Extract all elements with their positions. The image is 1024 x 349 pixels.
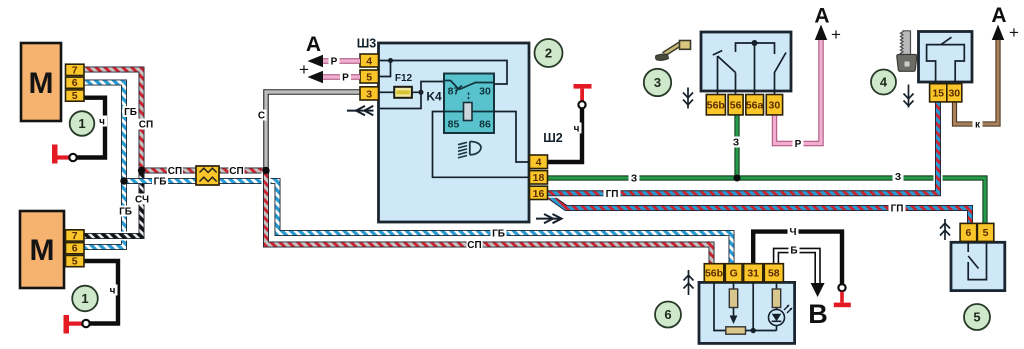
svg-text:4: 4 xyxy=(880,75,888,90)
ground symbol motor M1 xyxy=(52,145,77,164)
connector pins 6,5 of fog switch xyxy=(960,223,994,241)
svg-text:С: С xyxy=(258,111,265,122)
svg-text:85: 85 xyxy=(448,119,460,131)
svg-text:56a: 56a xyxy=(746,100,764,112)
ignition switch unit 4 body xyxy=(919,32,973,83)
wire SP from motor1 pin7 down to node A xyxy=(84,70,142,171)
relay 85-86 rail xyxy=(444,111,494,113)
unit6 LED indicator xyxy=(769,305,793,326)
svg-text:Р: Р xyxy=(795,139,802,150)
node C junction dot xyxy=(262,167,269,174)
relay terminal labels 87 30 85 86 xyxy=(448,86,491,131)
lamp switch unit 6 body xyxy=(699,282,795,343)
svg-text:A: A xyxy=(306,33,321,56)
svg-text:56: 56 xyxy=(730,100,742,112)
mounting block unit 2 xyxy=(379,43,530,222)
connector pins 56b,G,31,58 of lamp switch unit 6 xyxy=(704,264,783,282)
wire GB vertical node B to motor2 pin6 xyxy=(84,181,124,247)
stalk lever icon of switch 3 xyxy=(656,41,691,61)
label ch on power wire of Sh2 pin4 xyxy=(572,123,582,135)
connector Sh3 pins 4,5,3 xyxy=(360,54,379,100)
label Z on light switch green vertical xyxy=(731,137,742,149)
light switch unit 3 body xyxy=(701,32,791,91)
svg-text:5: 5 xyxy=(366,71,372,83)
svg-text:1: 1 xyxy=(78,116,85,131)
junction dot on pin4 wire xyxy=(388,58,393,63)
wire Sh3 pin3 to fuse xyxy=(379,91,395,93)
unit6 wire 56b to rheostat xyxy=(714,282,726,330)
wire Z green from light-switch pin56 down to junction xyxy=(734,115,739,178)
svg-text:30: 30 xyxy=(948,88,960,100)
svg-text:СП: СП xyxy=(139,120,153,131)
arrowhead of pink wire A xyxy=(815,25,827,41)
arrowhead of wire B xyxy=(811,283,825,297)
label GP on striped wire a xyxy=(604,188,621,200)
svg-text:+: + xyxy=(1009,23,1019,42)
wire Ch thick from lamp-switch pin31 to ground xyxy=(753,232,842,284)
svg-text:ч: ч xyxy=(99,117,105,128)
connector pins 15,30 of ignition switch xyxy=(930,84,962,102)
wire SCh node A to motor2 pin7 (crosses over GB) xyxy=(84,171,142,237)
LABELS-LAYER xyxy=(97,56,983,297)
ignition switch internal contacts xyxy=(927,37,965,84)
svg-text:M: M xyxy=(30,234,55,267)
svg-text:6: 6 xyxy=(72,243,78,255)
label GP on striped wire b xyxy=(889,203,906,215)
label SP on motor1 pin7 wire xyxy=(138,119,154,131)
relay dashed actuator link xyxy=(468,93,470,102)
svg-text:ч: ч xyxy=(110,286,116,297)
label ch on motor2 ground wire xyxy=(108,285,118,297)
label C on gray wire xyxy=(257,110,267,122)
motor M2 (headlamp cleaner motor, bottom) xyxy=(20,211,64,288)
arrowhead of brown wire A xyxy=(992,25,1004,41)
svg-text:5: 5 xyxy=(72,90,78,102)
connector Sh2 pins 4,18,16 xyxy=(530,155,548,200)
wire relay 86 to Sh2 pin4 xyxy=(494,112,530,163)
svg-text:A: A xyxy=(814,5,829,28)
key icon of ignition switch xyxy=(897,31,917,72)
label GB on long horizontal wire xyxy=(491,228,507,240)
label Z on green wire right xyxy=(893,171,904,183)
svg-text:G: G xyxy=(730,268,738,280)
svg-text:5: 5 xyxy=(973,310,980,325)
svg-text:З: З xyxy=(895,172,901,183)
wire Ch from Sh2 pin4 to power point xyxy=(548,108,583,162)
svg-text:Р: Р xyxy=(331,57,338,68)
svg-text:4: 4 xyxy=(536,157,542,169)
relay contact blade 87-30 xyxy=(444,81,494,92)
svg-text:ч: ч xyxy=(574,124,580,135)
wire GB horizontal node B to lamp-switch pin G xyxy=(124,181,732,264)
unit6 wire 58 through resistor to LED xyxy=(772,282,780,330)
ground symbol motor M2 xyxy=(64,315,90,334)
wire Ch motor1 pin5 to ground xyxy=(77,98,105,158)
svg-text:СП: СП xyxy=(229,166,243,177)
continuation symbol near switch 5 xyxy=(940,219,950,240)
svg-text:Р: Р xyxy=(342,73,349,84)
unit6 rheostat xyxy=(726,327,746,334)
label ch on motor1 ground wire xyxy=(97,116,107,128)
pink arrow P to Sh3 pin4 xyxy=(308,55,361,67)
callout circle 4 xyxy=(871,70,896,95)
svg-text:ГБ: ГБ xyxy=(154,177,167,188)
label P in middle of pink arrow pin4 xyxy=(329,56,340,68)
node A junction dot xyxy=(138,167,145,174)
callout circle 3 xyxy=(644,69,671,96)
relay K4 body xyxy=(444,74,494,134)
svg-text:В: В xyxy=(808,299,828,329)
continuation symbol below switch 3 xyxy=(683,88,693,109)
callout circle 1 (bottom motor) xyxy=(72,286,98,312)
svg-text:Ч: Ч xyxy=(789,227,796,238)
svg-text:87: 87 xyxy=(448,86,460,98)
continuation symbol left-chevrons near Sh3 xyxy=(347,106,374,115)
svg-text:18: 18 xyxy=(533,172,545,184)
svg-text:58: 58 xyxy=(768,268,780,280)
wire GP-b from Sh2 pin16 to fog-switch pin6 xyxy=(548,195,971,224)
jumper Sh3 pin4 to pin5 xyxy=(379,61,391,77)
connector pins 7,6,5 of motor M1 xyxy=(66,64,85,102)
callout circle 6 xyxy=(655,302,681,328)
callout circle 5 xyxy=(964,304,990,330)
wire Ch motor2 pin5 to ground xyxy=(84,261,118,324)
svg-text:3: 3 xyxy=(654,75,661,90)
wire GB from motor1 pin6 down to node B xyxy=(84,83,124,182)
svg-text:Ш2: Ш2 xyxy=(543,131,563,145)
svg-text:30: 30 xyxy=(769,100,781,112)
wire C gray from connector Sh3 pin3 to junction node xyxy=(266,92,379,171)
arrow A with + near Sh3 xyxy=(299,33,321,79)
svg-text:ГП: ГП xyxy=(891,204,904,215)
svg-text:5: 5 xyxy=(72,256,78,268)
wire relay 85 to Sh2 pin18 xyxy=(433,112,530,178)
label GB on horizontal wire xyxy=(152,176,168,188)
svg-text:6: 6 xyxy=(72,77,78,89)
fuse F12 xyxy=(394,87,412,98)
svg-text:ГБ: ГБ xyxy=(119,207,132,218)
label GB on vertical to motor2 xyxy=(118,206,134,218)
wire fuse to node K4 and branches xyxy=(380,82,444,109)
svg-text:5: 5 xyxy=(983,227,989,239)
svg-text:4: 4 xyxy=(366,55,372,67)
callout circle 2 xyxy=(535,39,563,67)
label SP on long horizontal wire xyxy=(467,239,483,251)
wire inside block: Sh3 pin4 to relay contact 30 xyxy=(379,61,508,85)
svg-text:56b: 56b xyxy=(707,100,725,112)
arrow A with + for brown wire xyxy=(991,4,1019,42)
label Z on green wire left xyxy=(629,173,640,185)
power point symbol at Sh2 pin4 wire xyxy=(574,84,592,108)
svg-text:ГП: ГП xyxy=(606,189,619,200)
node B junction dot xyxy=(120,177,127,184)
wire GP-a from Sh2 pin16 to ignition pin15 (crosses over Z) xyxy=(548,102,939,193)
relay coil xyxy=(464,103,473,121)
arrow A with + for pink wire xyxy=(814,5,841,45)
svg-text:K4: K4 xyxy=(426,90,442,104)
ground symbol for lamp switch Ch wire xyxy=(834,284,851,307)
fog switch internal contacts xyxy=(968,242,986,279)
label B on thin wire unit6 xyxy=(789,245,800,257)
svg-text:З: З xyxy=(631,174,637,185)
svg-text:15: 15 xyxy=(932,88,944,100)
connector pins 7,6,5 of motor M2 xyxy=(66,230,85,268)
junction dot node K4 xyxy=(419,90,424,95)
svg-text:3: 3 xyxy=(366,88,372,100)
junction dot in light switch xyxy=(752,40,758,46)
label SP right of splice xyxy=(229,165,245,177)
label P on pink wire xyxy=(793,138,804,150)
svg-text:F12: F12 xyxy=(395,73,413,84)
node Z junction dot on green wire xyxy=(734,175,741,182)
label SCh on motor2 pin7 wire xyxy=(134,194,150,206)
motor M1 (headlamp cleaner motor, top) xyxy=(21,43,61,121)
svg-text:2: 2 xyxy=(545,46,552,61)
wire Z green from Sh2 pin18 to fog-switch pin5 xyxy=(548,178,986,224)
svg-text:ГБ: ГБ xyxy=(124,107,137,118)
wire K brown from ignition pin30 to arrow A xyxy=(955,38,999,124)
label Ch on thick black wire unit6 xyxy=(788,226,799,238)
label GB on motor1 pin6 wire xyxy=(123,106,139,118)
svg-text:M: M xyxy=(29,67,54,100)
callout circle 1 (top motor) xyxy=(70,111,95,136)
svg-text:56b: 56b xyxy=(705,268,723,280)
svg-text:6: 6 xyxy=(965,227,971,239)
svg-text:СП: СП xyxy=(467,240,481,251)
svg-text:7: 7 xyxy=(72,64,78,76)
fog light switch unit 5 body xyxy=(951,242,1005,290)
svg-text:30: 30 xyxy=(479,86,491,98)
continuation symbol right-chevrons near Sh2 xyxy=(536,214,562,223)
unit6 junction dot xyxy=(751,328,756,333)
WIRES-LAYER xyxy=(77,25,1004,324)
wire SP horizontal node A to node C through splice xyxy=(142,168,267,174)
wire B hollow double-line from lamp-switch pin58 to arrow V xyxy=(774,248,820,284)
svg-text:A: A xyxy=(991,4,1006,27)
svg-text:6: 6 xyxy=(664,307,671,322)
wire P pink from light-switch pin30 to arrow A xyxy=(775,38,822,144)
light switch internal contacts xyxy=(713,43,786,95)
label P in middle of pink arrow pin5 xyxy=(340,72,351,84)
svg-text:Ш3: Ш3 xyxy=(357,37,377,51)
fog lamp icon xyxy=(458,142,481,158)
svg-text:СП: СП xyxy=(168,166,182,177)
svg-text:СЧ: СЧ xyxy=(135,195,149,206)
svg-text:86: 86 xyxy=(479,119,491,131)
wire SP node C to lamp-switch pin 56b (crosses over GB) xyxy=(266,171,712,265)
unit6 wire 31 down to node xyxy=(746,282,777,330)
continuation symbol below switch 4 xyxy=(904,85,914,108)
svg-text:Б: Б xyxy=(790,246,797,257)
pink arrow P to Sh3 pin5 xyxy=(308,71,361,83)
svg-text:16: 16 xyxy=(533,188,545,200)
svg-text:ГБ: ГБ xyxy=(492,229,505,240)
unit6 wire G through resistor with wiper arrow xyxy=(729,282,737,324)
label k on brown wire xyxy=(973,119,983,131)
label SP left of splice xyxy=(167,165,183,177)
svg-text:7: 7 xyxy=(72,230,78,242)
continuation symbol near switch 6 xyxy=(684,270,694,295)
svg-text:1: 1 xyxy=(81,291,88,306)
svg-text:31: 31 xyxy=(747,268,759,280)
svg-text:+: + xyxy=(831,25,841,44)
splice connector X1 on SP wire xyxy=(196,166,219,185)
connector pins 56b,56,56a,30 of light switch xyxy=(706,95,782,115)
svg-text:+: + xyxy=(299,60,309,79)
svg-text:З: З xyxy=(733,138,739,149)
